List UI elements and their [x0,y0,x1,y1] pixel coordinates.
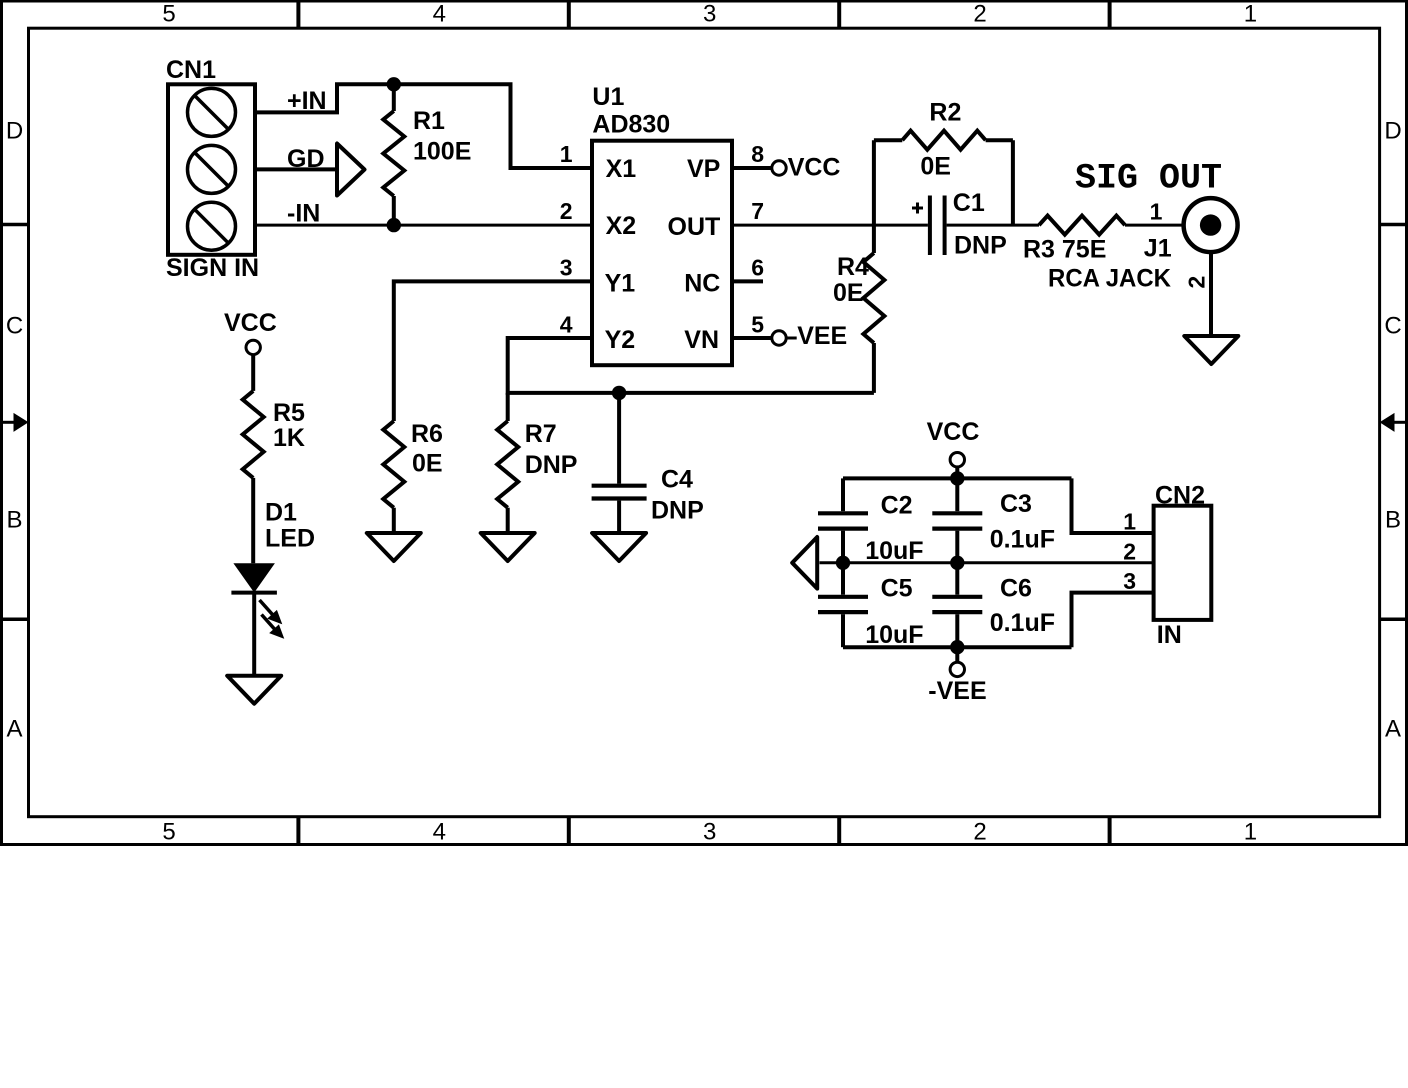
svg-text:RCA JACK: RCA JACK [1048,264,1171,292]
svg-text:C5: C5 [881,575,913,603]
svg-text:CN1: CN1 [166,56,216,84]
border row dividers [1,223,29,227]
terminal VEE at pin 5 [772,331,786,345]
connector CN1 [168,84,255,255]
svg-text:2: 2 [1123,539,1136,565]
ground D1 [227,676,281,704]
wire top power rail [843,476,1072,480]
capacitor C5 [818,563,868,647]
resistor R5 [243,391,264,478]
svg-text:-VEE: -VEE [928,677,986,705]
svg-text:C2: C2 [881,492,913,520]
svg-text:2: 2 [1184,276,1210,289]
svg-text:1: 1 [560,141,573,167]
wire R2 left vertical + R4 top lead [872,140,876,253]
node junction VEE rail [950,640,964,654]
svg-text:X1: X1 [606,155,637,183]
svg-text:A: A [6,716,22,743]
border outer frame [2,1,1407,845]
svg-text:Y2: Y2 [605,326,636,354]
svg-text:D1: D1 [265,499,297,527]
svg-text:NC: NC [684,270,720,298]
node junction R1 bottom [387,218,401,232]
svg-text:C6: C6 [1000,575,1032,603]
svg-text:C4: C4 [661,466,693,494]
svg-text:3: 3 [560,255,573,281]
svg-text:C: C [6,313,23,340]
svg-text:LED: LED [265,525,315,553]
svg-text:0E: 0E [833,279,864,307]
svg-text:U1: U1 [592,83,624,111]
diode D1 LED [231,563,283,637]
svg-text:1: 1 [1123,509,1136,535]
svg-text:4: 4 [433,819,446,846]
resistor R3 [1039,216,1125,235]
wire -IN net: CN1 pin3 to U1 X2 [255,224,592,227]
svg-text:X2: X2 [606,212,637,240]
ground arrow GD [337,144,365,196]
border column dividers [296,1,300,28]
wire OUT net: C1 right to R3 [947,224,1039,227]
svg-text:0E: 0E [412,450,443,478]
border centering arrow right [1395,421,1407,424]
svg-text:2: 2 [560,198,573,224]
svg-text:4: 4 [560,311,573,337]
wire +IN net: CN1 pin1 to R1 top and U1 pin 1 [255,84,592,168]
svg-text:R4: R4 [837,253,869,281]
svg-text:R3 75E: R3 75E [1023,236,1106,264]
svg-text:J1: J1 [1144,235,1172,263]
svg-text:3: 3 [1123,568,1136,594]
svg-text:5: 5 [162,819,175,846]
svg-text:2: 2 [973,819,986,846]
svg-text:R7: R7 [525,420,557,448]
svg-text:+IN: +IN [287,87,327,115]
node junction mid rail left [836,556,850,570]
svg-text:GD: GD [287,145,325,173]
svg-text:SIGN IN: SIGN IN [166,254,259,282]
svg-text:DNP: DNP [954,231,1007,259]
svg-text:D: D [1384,117,1401,144]
svg-text:B: B [6,506,22,533]
wire OUT net: U1 pin 7 to C1 left [732,224,928,227]
svg-text:3: 3 [703,0,716,27]
capacitor C3 [932,478,982,562]
svg-text:10uF: 10uF [865,537,923,565]
svg-text:CN2: CN2 [1155,482,1205,510]
svg-text:R5: R5 [273,399,305,427]
wire CN2 pin 1 [1072,478,1154,533]
terminal VCC (R5 branch) [246,340,260,354]
svg-text:4: 4 [433,0,446,27]
wire R5 to D1 [251,478,255,563]
svg-text:R2: R2 [929,99,961,127]
ground R6 [367,533,421,561]
svg-text:Y1: Y1 [605,270,636,298]
svg-text:3: 3 [703,819,716,846]
wire Y2 net: U1 pin 4 loop to R4 bottom [508,338,874,393]
svg-text:SIG OUT: SIG OUT [1075,159,1222,199]
svg-text:0.1uF: 0.1uF [990,609,1055,637]
border inner frame [29,28,1380,817]
svg-text:VEE: VEE [797,322,847,350]
svg-text:VCC: VCC [927,418,980,446]
svg-text:0E: 0E [920,152,951,180]
capacitor C4 [592,393,647,533]
svg-text:1K: 1K [273,424,305,452]
svg-text:1: 1 [1244,0,1257,27]
border centering arrow left [1,421,14,424]
wire R2 right vertical [1011,140,1015,225]
svg-text:-IN: -IN [287,200,320,228]
wire J1 pin 2 to ground [1209,252,1213,336]
svg-text:VP: VP [687,155,720,183]
svg-text:R1: R1 [413,107,445,135]
terminal -VEE [955,647,959,662]
svg-text:2: 2 [973,0,986,27]
wire Y1 net: U1 pin 3 to R6 [394,281,592,421]
svg-text:1: 1 [1244,819,1257,846]
svg-text:C1: C1 [953,189,985,217]
svg-text:5: 5 [751,311,764,337]
pin stub VP pin 8 [732,166,772,170]
op-amp U1 AD830 body [592,141,732,366]
svg-text:DNP: DNP [525,451,578,479]
svg-text:AD830: AD830 [592,111,670,139]
svg-text:IN: IN [1157,621,1182,649]
node junction C4 top [612,386,626,400]
svg-text:10uF: 10uF [865,621,923,649]
node junction R1 top [387,77,401,91]
ground J1 [1184,336,1238,364]
svg-text:5: 5 [162,0,175,27]
capacitor C1 (polarized) [912,196,945,256]
svg-text:0.1uF: 0.1uF [990,526,1055,554]
capacitor C6 [932,563,982,647]
resistor R4 [863,253,884,393]
svg-text:A: A [1385,716,1401,743]
wire middle rail pin2 net [820,561,1154,564]
svg-text:8: 8 [751,141,764,167]
node junction mid rail center [950,556,964,570]
connector CN2 [1154,506,1212,620]
svg-text:VN: VN [684,326,719,354]
wire OUT net: R3 to J1 [1125,224,1184,227]
terminal VCC at pin 8 [772,161,786,175]
svg-text:6: 6 [751,255,764,281]
svg-text:VCC: VCC [788,153,841,181]
ground arrow power block [792,537,817,589]
svg-text:R6: R6 [411,420,443,448]
svg-text:DNP: DNP [651,497,704,525]
resistor R6 [383,421,404,533]
wire D1 to ground [252,593,256,676]
ground C4 [592,533,646,561]
resistor R2 [874,131,1013,150]
svg-text:C3: C3 [1000,490,1032,518]
capacitor C2 [818,478,868,562]
node junction VCC rail [950,471,964,485]
ground R7 [481,533,535,561]
pin stub VN pin 5 [732,336,771,340]
wire CN2 pin 3 [1072,593,1154,648]
svg-text:C: C [1384,313,1401,340]
terminal VCC (power block) [950,453,964,467]
svg-text:7: 7 [751,198,764,224]
svg-text:VCC: VCC [224,309,277,337]
resistor R1 [383,84,404,225]
svg-text:1: 1 [1150,199,1163,225]
wire bottom power rail [843,645,1072,649]
wire VCC to R5 [251,355,255,391]
wire GD net [255,167,337,171]
svg-text:B: B [1385,506,1401,533]
svg-text:D: D [6,117,23,144]
resistor R7 [497,393,518,533]
svg-text:OUT: OUT [668,213,721,241]
svg-text:100E: 100E [413,138,471,166]
pin stub NC pin 6 [732,279,763,283]
connector J1 RCA jack [1184,198,1238,252]
